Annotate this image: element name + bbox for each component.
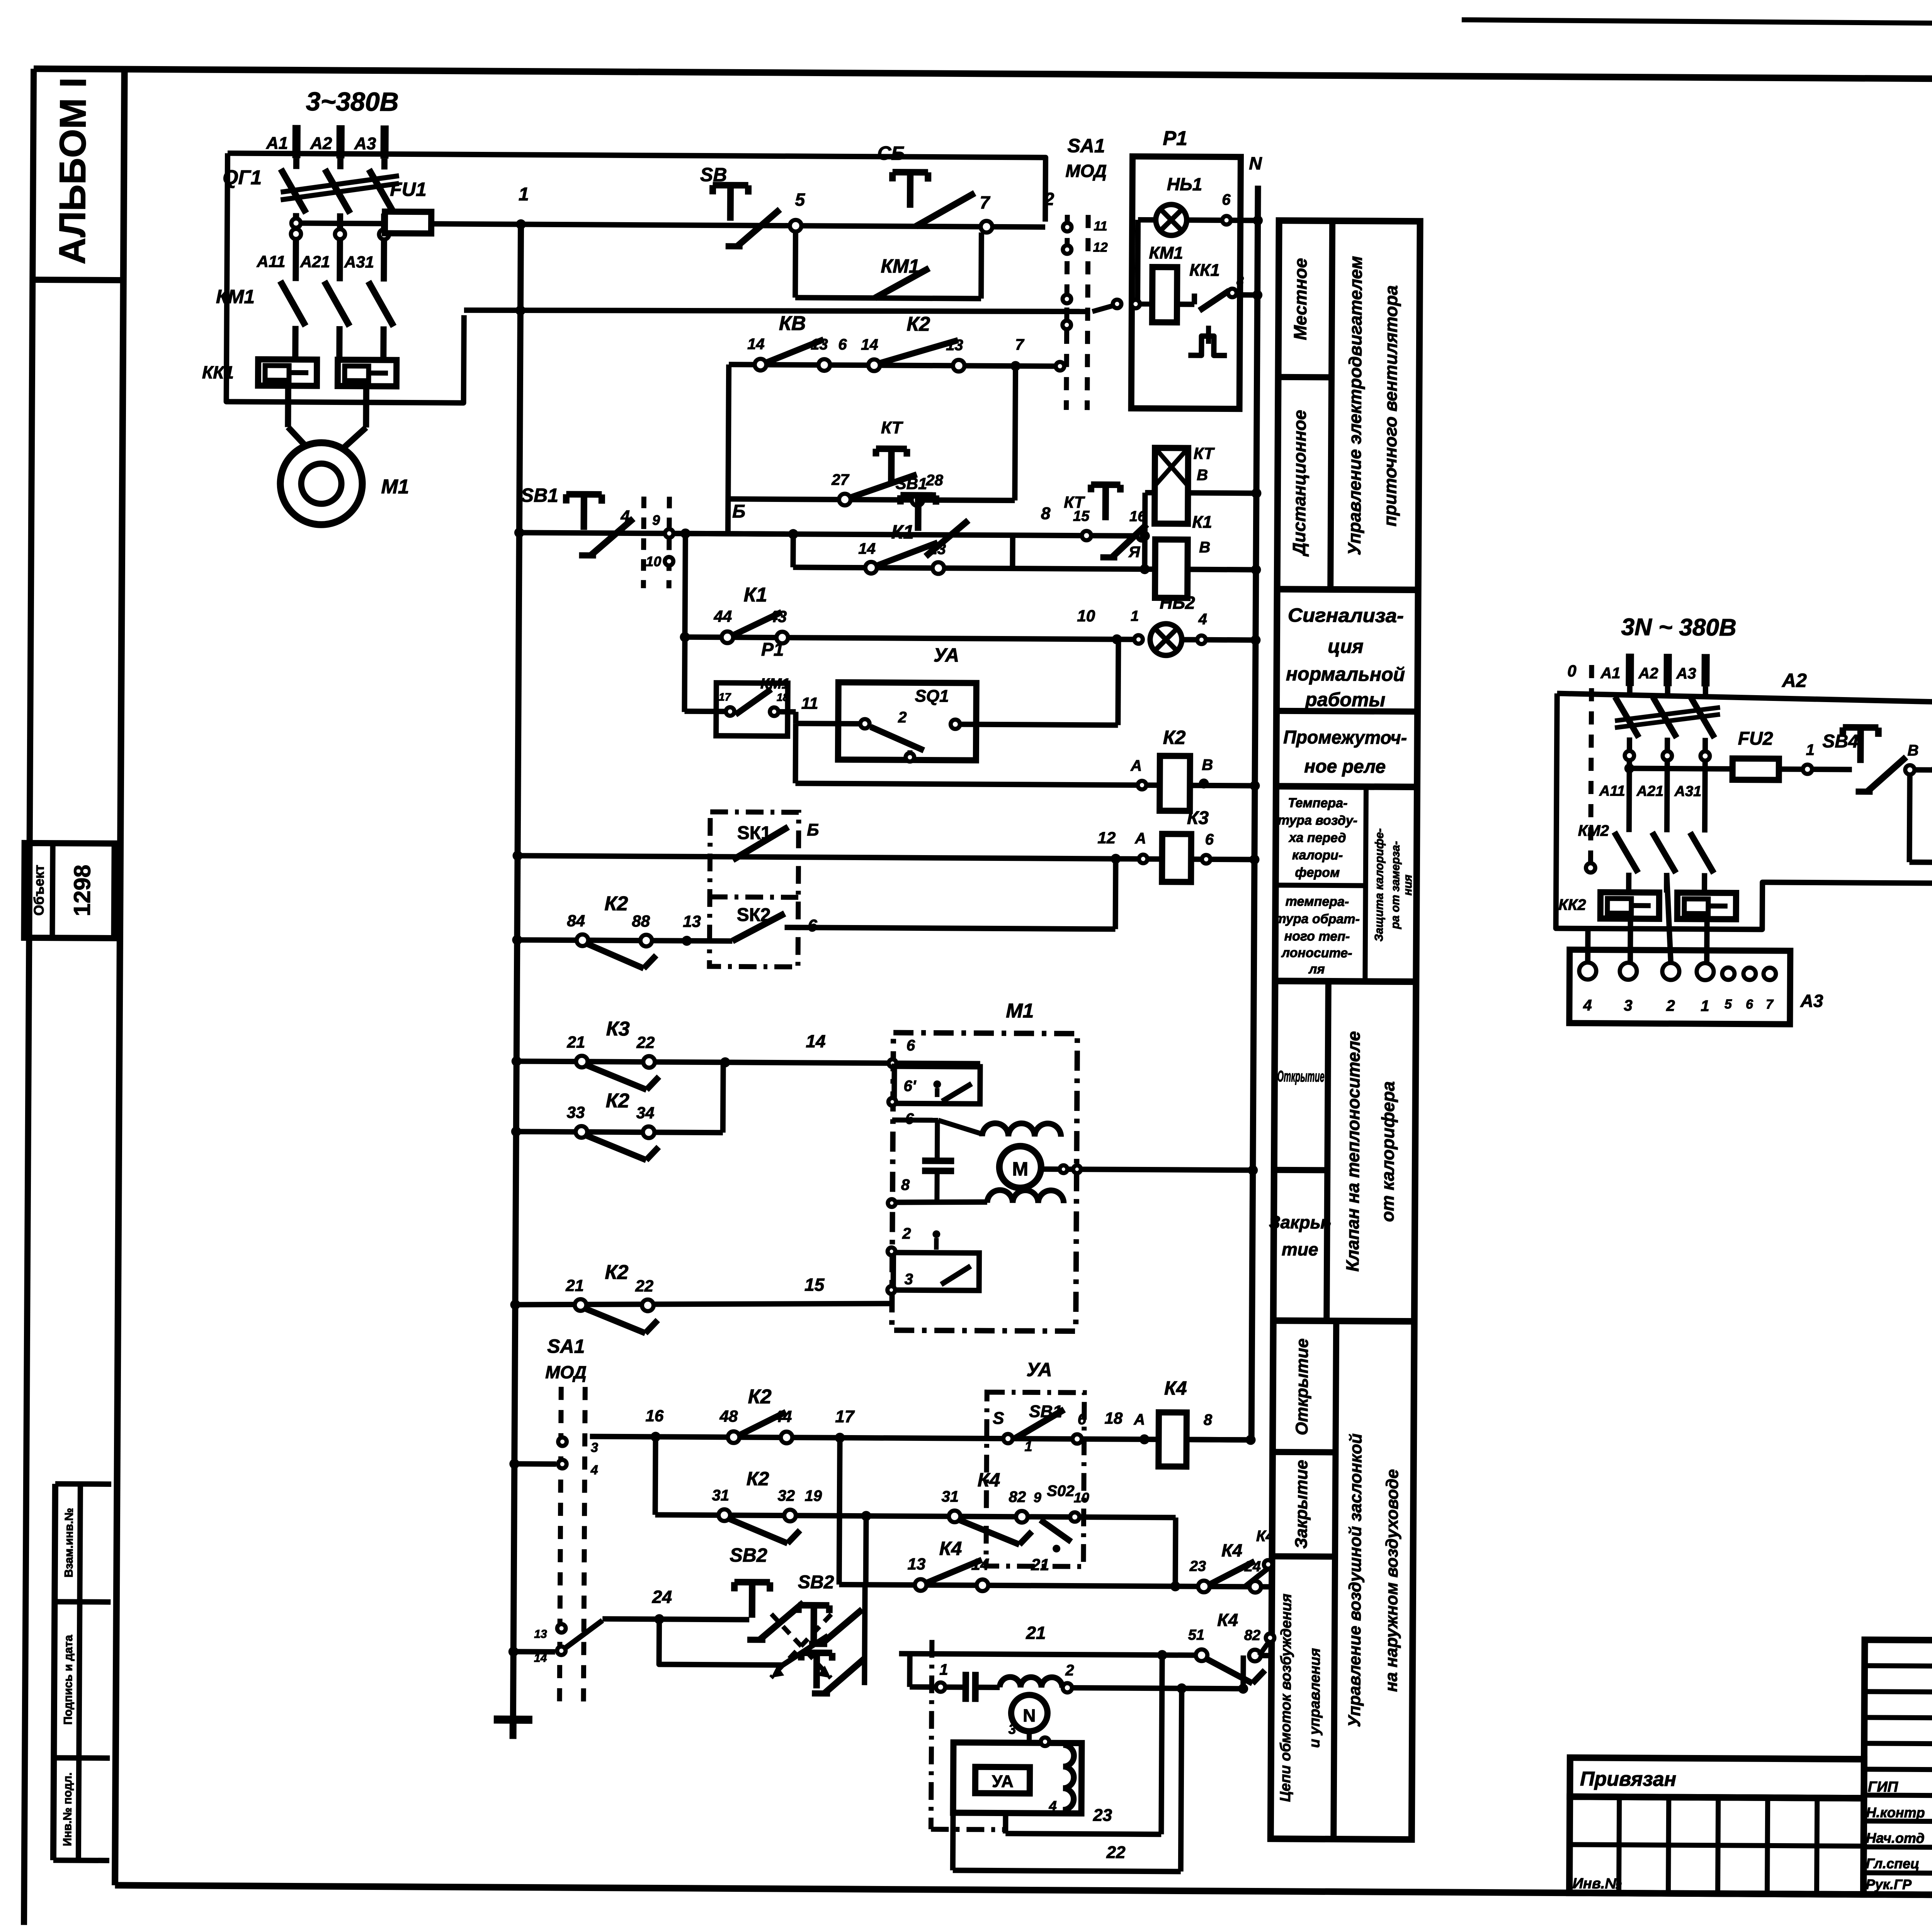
wire 21 riser to cap row [907, 1654, 912, 1687]
svg-text:ное реле: ное реле [1304, 756, 1386, 777]
panel box A2 left [1556, 694, 1932, 931]
svg-text:Б: Б [732, 501, 745, 522]
svg-text:Подпись и дата: Подпись и дата [62, 1635, 75, 1725]
panel boundary R1 [1131, 156, 1241, 409]
svg-text:13: 13 [534, 1628, 547, 1641]
svg-text:КМ1: КМ1 [760, 676, 790, 692]
svg-text:7: 7 [1015, 336, 1024, 353]
riser KT contact to K1 coil [1142, 536, 1147, 569]
svg-text:6: 6 [1222, 191, 1231, 208]
solenoid box UA (bottom) [986, 1392, 1084, 1566]
winding lower [987, 1190, 1064, 1203]
svg-text:К2: К2 [605, 1261, 628, 1284]
svg-text:К4: К4 [1256, 1527, 1274, 1544]
svg-text:А31: А31 [344, 253, 374, 271]
svg-text:А1: А1 [1600, 665, 1620, 682]
wire K2 15 row [510, 1299, 520, 1310]
svg-text:6: 6 [1205, 831, 1214, 848]
svg-text:14: 14 [858, 540, 876, 557]
svg-text:3: 3 [1624, 997, 1632, 1014]
svg-text:21: 21 [1031, 1555, 1049, 1573]
svg-text:2: 2 [898, 709, 906, 726]
svg-text:УА: УА [934, 644, 959, 666]
svg-text:14: 14 [806, 1031, 825, 1051]
terminal strip A3 [1569, 950, 1790, 1024]
svg-text:SА1: SА1 [1067, 135, 1105, 157]
svg-text:УА: УА [992, 1772, 1014, 1791]
motor M (damper) [999, 1146, 1041, 1188]
selector SA1 MOD dashed (rail B) [643, 497, 644, 588]
svg-text:2: 2 [1065, 1662, 1074, 1679]
phase ticks right [1626, 654, 1634, 686]
breaker QF2 poles [1627, 686, 1633, 697]
svg-text:23: 23 [1189, 1558, 1206, 1575]
limit switch SQ1 box UA [838, 682, 976, 760]
KK1 trip step symbol [1206, 326, 1211, 344]
svg-text:от калорифера: от калорифера [1378, 1081, 1398, 1222]
svg-text:Открытие: Открытие [1293, 1338, 1312, 1435]
svg-text:SВ1: SВ1 [896, 474, 927, 493]
svg-text:КМ2: КМ2 [1578, 822, 1609, 839]
svg-text:48: 48 [719, 1407, 738, 1425]
svg-text:Закры-: Закры- [1269, 1212, 1331, 1233]
svg-text:К4: К4 [939, 1537, 962, 1559]
svg-text:М1: М1 [1006, 1000, 1034, 1022]
time relay KT contact row [728, 499, 1015, 500]
svg-text:14: 14 [747, 336, 765, 353]
svg-text:51: 51 [1188, 1627, 1205, 1643]
wire rail B continued [675, 534, 1142, 536]
svg-text:Гл.спец: Гл.спец [1866, 1855, 1920, 1872]
interlock cross arrows [771, 1614, 831, 1678]
svg-text:КВ: КВ [779, 312, 806, 335]
svg-text:К4: К4 [1221, 1540, 1242, 1560]
object box Объект 1298 [24, 843, 114, 938]
svg-text:КК1: КК1 [1189, 261, 1220, 280]
svg-text:А: А [1133, 1411, 1145, 1428]
node 7b [1010, 361, 1020, 371]
svg-text:SВ2: SВ2 [730, 1544, 767, 1566]
wire to K3 coil [1116, 856, 1162, 862]
contact SK1 [733, 827, 788, 860]
svg-text:А3: А3 [354, 134, 376, 153]
phase feeder ticks L1 L2 L3 [292, 125, 300, 158]
svg-text:КМ1: КМ1 [216, 286, 255, 308]
node A KT [1140, 531, 1150, 541]
svg-text:S: S [993, 1409, 1004, 1428]
svg-text:6: 6 [1746, 997, 1753, 1012]
wire 23 [1003, 1813, 1008, 1833]
svg-text:А3: А3 [1676, 665, 1696, 682]
sheet outer left border line [24, 69, 34, 1925]
wire row 13-14 [839, 1438, 840, 1585]
svg-text:34: 34 [636, 1104, 655, 1122]
svg-text:6: 6 [838, 336, 847, 353]
svg-text:4: 4 [590, 1463, 598, 1477]
svg-text:11: 11 [1094, 219, 1107, 233]
svg-text:К1: К1 [891, 521, 914, 543]
title block revision grid [1863, 1640, 1932, 1896]
svg-text:12: 12 [1093, 240, 1108, 255]
svg-text:Местное: Местное [1290, 258, 1311, 340]
svg-text:НЬ2: НЬ2 [1160, 592, 1195, 612]
svg-text:Н.контр: Н.контр [1866, 1804, 1925, 1821]
svg-text:8: 8 [901, 1177, 910, 1194]
wire to table edge [1259, 1653, 1270, 1658]
svg-text:на наружном воздуховоде: на наружном воздуховоде [1382, 1469, 1402, 1692]
SB2 loop wires [659, 1619, 828, 1665]
svg-text:N: N [1023, 1705, 1036, 1725]
wire SQ1 to lamp riser [960, 724, 1118, 725]
svg-text:Клапан на теплоносителе: Клапан на теплоносителе [1342, 1031, 1364, 1272]
svg-text:1: 1 [1701, 997, 1709, 1014]
svg-text:калори-: калори- [1292, 848, 1343, 863]
svg-text:8: 8 [1204, 1412, 1213, 1429]
lamp HL1 feed wire [1138, 217, 1156, 223]
svg-text:31: 31 [941, 1488, 959, 1505]
SA1 contacts on rail2 [1063, 295, 1071, 303]
svg-text:10: 10 [1074, 1490, 1089, 1505]
svg-text:3: 3 [905, 1271, 913, 1288]
svg-text:Цепи обмоток возбуждения: Цепи обмоток возбуждения [1277, 1594, 1295, 1802]
svg-text:31: 31 [712, 1487, 729, 1504]
solenoid assembly box [953, 1742, 1082, 1813]
sheet top edge line [1462, 20, 1932, 29]
function table column divider [1330, 221, 1332, 589]
svg-text:33: 33 [567, 1103, 585, 1121]
svg-text:12: 12 [1097, 828, 1116, 847]
svg-text:К4: К4 [1164, 1377, 1187, 1399]
svg-text:тура возду-: тура возду- [1278, 813, 1357, 828]
svg-text:QГ1: QГ1 [223, 166, 262, 189]
svg-text:Дистанционное: Дистанционное [1289, 410, 1310, 557]
svg-text:SА1: SА1 [547, 1335, 585, 1357]
svg-text:ния: ния [1401, 874, 1414, 896]
capacitor + winding row [936, 1682, 945, 1692]
svg-text:9: 9 [652, 512, 660, 528]
panel boundary R1 (aux contact) [716, 683, 788, 736]
wire K2 31-32 row [655, 1437, 656, 1515]
svg-text:АЛЬБОМ I: АЛЬБОМ I [52, 77, 94, 264]
svg-text:А2: А2 [1638, 665, 1658, 682]
svg-text:Взам.инв.№: Взам.инв.№ [63, 1508, 76, 1577]
svg-text:нормальной: нормальной [1286, 663, 1405, 685]
wire rail B [519, 532, 793, 534]
svg-text:ха перед: ха перед [1288, 830, 1346, 845]
motor M1 [280, 442, 362, 525]
svg-text:КМ1: КМ1 [1149, 243, 1183, 262]
wire motor to N bus [1041, 1169, 1253, 1170]
svg-text:Темпера-: Темпера- [1288, 796, 1347, 811]
svg-text:3: 3 [1009, 1721, 1016, 1737]
svg-text:работы: работы [1304, 689, 1385, 711]
svg-text:5: 5 [795, 189, 805, 209]
wire terminal6 to winding [938, 1120, 982, 1134]
svg-text:2: 2 [1666, 997, 1675, 1014]
svg-text:К3: К3 [606, 1018, 630, 1040]
svg-text:К1: К1 [1192, 513, 1212, 532]
svg-text:18: 18 [777, 691, 789, 703]
svg-text:ГИП: ГИП [1868, 1779, 1898, 1795]
node 5 [790, 220, 801, 231]
svg-text:НЬ1: НЬ1 [1167, 174, 1202, 194]
relay coil K1 [1155, 539, 1188, 598]
wire rail K4 (open) [590, 1436, 1251, 1440]
svg-text:КТ: КТ [881, 418, 903, 437]
svg-text:А1: А1 [266, 134, 288, 153]
svg-text:А21: А21 [1636, 783, 1663, 799]
contactor KM1 seal-in contact loop [793, 231, 798, 298]
svg-text:МОД: МОД [545, 1362, 587, 1383]
relay coil K3 [1139, 855, 1147, 863]
svg-text:2: 2 [902, 1225, 911, 1242]
contact SK2 [732, 913, 784, 941]
svg-text:88: 88 [632, 912, 650, 930]
svg-text:18: 18 [1104, 1409, 1123, 1427]
wires to terminal strip [1628, 919, 1633, 963]
svg-text:МОД: МОД [1065, 161, 1107, 181]
SA1 link to panel R1 [1092, 306, 1112, 311]
riser to KT coil [1142, 493, 1148, 536]
svg-text:К2: К2 [748, 1386, 772, 1408]
svg-text:К2: К2 [1163, 726, 1186, 748]
svg-text:14: 14 [534, 1652, 547, 1665]
svg-text:тие: тие [1282, 1239, 1318, 1259]
svg-text:темпера-: темпера- [1286, 894, 1349, 909]
dashed zero line [1590, 665, 1592, 863]
svg-text:17: 17 [719, 691, 731, 703]
wire to SB4 [1779, 767, 1852, 772]
svg-text:13: 13 [907, 1555, 925, 1573]
svg-text:К2: К2 [604, 893, 628, 915]
svg-text:К4: К4 [978, 1469, 1000, 1491]
binding grid [1569, 1797, 1864, 1895]
wire KT coil to N [1188, 490, 1256, 496]
wire to node 11 [779, 709, 796, 714]
wires KK1 to motor [285, 386, 291, 427]
damper motor box M1 [892, 1033, 1077, 1331]
svg-text:Нач.отд: Нач.отд [1866, 1830, 1925, 1846]
svg-text:К4: К4 [1217, 1610, 1238, 1630]
svg-text:ция: ция [1328, 635, 1364, 657]
svg-text:ра от замерза-: ра от замерза- [1389, 841, 1402, 930]
svg-text:Промежуточ-: Промежуточ- [1283, 727, 1407, 748]
drawing frame border [34, 69, 1932, 83]
vertical winding [1063, 1745, 1074, 1810]
svg-text:10: 10 [646, 553, 661, 569]
left strip cell АЛЬБОМ I divider [32, 280, 123, 280]
wire row KB-K2 [729, 364, 1060, 366]
svg-text:N: N [1249, 153, 1262, 173]
svg-text:1298: 1298 [69, 865, 95, 917]
binding box Привязан [1570, 1758, 1864, 1798]
svg-text:Рук.ГР: Рук.ГР [1866, 1876, 1912, 1893]
svg-text:К2: К2 [606, 1090, 629, 1112]
svg-text:А31: А31 [1674, 783, 1701, 799]
svg-text:FU1: FU1 [390, 179, 427, 200]
svg-text:фером: фером [1295, 865, 1340, 880]
svg-text:21: 21 [567, 1033, 585, 1051]
wire K3 contact row [512, 1056, 522, 1066]
svg-text:Я: Я [1128, 544, 1140, 561]
function table outer border [1270, 221, 1420, 1840]
node 17 [835, 1433, 845, 1443]
svg-text:Закрытие: Закрытие [1292, 1460, 1311, 1549]
rail 2 wire [464, 308, 1088, 313]
push-button SB2 (third) [801, 1650, 832, 1656]
svg-text:23: 23 [1093, 1806, 1112, 1825]
svg-text:15: 15 [804, 1274, 825, 1294]
wire SQ2 to row3 [1080, 1517, 1176, 1517]
svg-text:28: 28 [925, 472, 943, 489]
svg-text:А11: А11 [1599, 783, 1625, 799]
node 12 [1111, 854, 1121, 864]
svg-text:лоносите-: лоносите- [1281, 946, 1352, 961]
exciter motor (N) [1011, 1695, 1048, 1731]
svg-text:16: 16 [645, 1406, 664, 1425]
riser to K4 row [1240, 1655, 1246, 1689]
svg-text:2: 2 [1044, 189, 1054, 209]
svg-text:6: 6 [906, 1037, 915, 1054]
node 16 [651, 1432, 661, 1442]
svg-text:4: 4 [1198, 611, 1207, 628]
wire K2 row 33-34 [516, 1131, 723, 1133]
svg-text:УА: УА [1026, 1359, 1052, 1380]
svg-text:8: 8 [1041, 504, 1051, 523]
svg-text:А2: А2 [310, 134, 332, 153]
svg-text:Защита калорифе-: Защита калорифе- [1372, 828, 1386, 941]
wire rail K3 [512, 850, 522, 861]
svg-text:К2: К2 [747, 1468, 769, 1490]
svg-text:19: 19 [804, 1487, 822, 1504]
svg-text:32: 32 [777, 1487, 795, 1504]
svg-text:К3: К3 [1187, 808, 1209, 828]
svg-text:22: 22 [635, 1277, 653, 1295]
svg-text:М1: М1 [381, 476, 409, 498]
relay coil KT (with X) [1155, 448, 1188, 524]
node B [1905, 765, 1915, 774]
svg-text:В: В [1197, 467, 1208, 484]
svg-text:82: 82 [1244, 1627, 1261, 1643]
vertical link wires [728, 364, 729, 534]
wire rail 14 into M1 [896, 1063, 980, 1064]
svg-text:ля: ля [1308, 962, 1325, 976]
ground [494, 1716, 532, 1724]
svg-text:7: 7 [1766, 997, 1774, 1012]
svg-text:СБ: СБ [877, 142, 905, 164]
svg-text:SQ1: SQ1 [915, 687, 949, 706]
svg-text:Объект: Объект [31, 865, 47, 916]
svg-text:7: 7 [980, 192, 990, 213]
power compartment outline [226, 153, 465, 403]
svg-text:15: 15 [1073, 508, 1090, 524]
svg-text:КК2: КК2 [1558, 896, 1586, 913]
svg-text:Б: Б [807, 820, 819, 839]
svg-text:Привязан: Привязан [1580, 1768, 1676, 1791]
wire HL2 row [685, 637, 1140, 639]
svg-text:Сигнализа-: Сигнализа- [1288, 604, 1404, 627]
wire row 21 (bottom) [899, 1654, 1202, 1655]
svg-text:В: В [1202, 757, 1213, 774]
svg-text:К2: К2 [906, 313, 930, 335]
svg-text:КК1: КК1 [202, 362, 234, 382]
SA1 contacts on rail1 [1063, 223, 1071, 231]
svg-text:3: 3 [591, 1440, 598, 1455]
main control bus 1 [513, 224, 521, 1718]
svg-text:22: 22 [636, 1033, 655, 1051]
winding upper [982, 1123, 1061, 1137]
svg-text:А2: А2 [1781, 670, 1807, 691]
svg-text:4: 4 [1049, 1798, 1057, 1814]
svg-text:13: 13 [683, 912, 701, 930]
svg-text:FU2: FU2 [1738, 728, 1773, 749]
svg-text:0: 0 [1567, 662, 1577, 680]
wire K2 coil row [793, 723, 799, 783]
wire rail SK2 [512, 935, 522, 945]
svg-text:5: 5 [1725, 997, 1732, 1012]
contactor KM2 seal-in loop [1909, 775, 1910, 862]
svg-text:3N ~ 380В: 3N ~ 380В [1621, 614, 1736, 641]
svg-text:17: 17 [835, 1407, 855, 1426]
svg-text:А11: А11 [256, 252, 285, 270]
svg-text:1: 1 [1806, 742, 1815, 759]
wire rail1 [431, 224, 1045, 227]
svg-text:8: 8 [1236, 274, 1244, 288]
svg-text:S02: S02 [1047, 1483, 1074, 1500]
SA1 contact to rail K4 [509, 1459, 519, 1469]
function table row lines [1278, 374, 1332, 381]
svg-text:4: 4 [620, 507, 630, 525]
svg-text:А3: А3 [1800, 991, 1823, 1011]
svg-text:К1: К1 [743, 584, 767, 606]
svg-text:1: 1 [1024, 1438, 1032, 1454]
svg-text:ного теп-: ного теп- [1284, 929, 1350, 944]
svg-text:Инв.№: Инв.№ [1573, 1876, 1622, 1892]
svg-text:4: 4 [1583, 997, 1592, 1014]
svg-text:44: 44 [713, 607, 732, 625]
relay coil K2 [1138, 781, 1146, 789]
svg-text:А: А [1130, 757, 1142, 774]
svg-text:А21: А21 [300, 252, 330, 270]
top control rail wire [227, 153, 1046, 222]
svg-text:1: 1 [519, 184, 529, 204]
svg-text:Открытие: Открытие [1277, 1068, 1324, 1085]
svg-text:14: 14 [861, 336, 878, 353]
svg-text:27: 27 [831, 471, 849, 488]
svg-text:10: 10 [1077, 607, 1095, 625]
svg-text:3~380В: 3~380В [306, 87, 398, 117]
svg-text:21: 21 [565, 1276, 584, 1294]
svg-text:М: М [1012, 1158, 1028, 1180]
svg-text:9: 9 [1034, 1489, 1041, 1505]
svg-text:Инв.№ подл.: Инв.№ подл. [61, 1772, 74, 1846]
svg-text:В: В [1907, 742, 1918, 759]
svg-text:22: 22 [1106, 1843, 1126, 1862]
capacitor [922, 1157, 954, 1164]
svg-text:82: 82 [1009, 1488, 1026, 1505]
wire K1 row [790, 534, 796, 567]
wire 22 [950, 1813, 956, 1870]
svg-text:21: 21 [1026, 1622, 1046, 1643]
contact SQ1 [860, 719, 869, 728]
svg-text:и управления: и управления [1306, 1648, 1323, 1748]
svg-text:SВ2: SВ2 [798, 1572, 834, 1592]
solenoid UA [975, 1767, 1030, 1794]
node 10 [1112, 634, 1122, 645]
svg-text:Р1: Р1 [761, 639, 784, 660]
thermostat box SK1/SK2 [709, 812, 799, 967]
svg-text:Р1: Р1 [1163, 127, 1187, 150]
